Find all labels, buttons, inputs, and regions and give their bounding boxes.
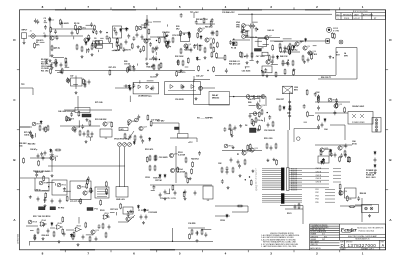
filter box FL1 <box>75 108 90 113</box>
potentiometer VR14 <box>57 183 66 187</box>
svg-text:.02: .02 <box>44 20 47 22</box>
wire <box>285 208 303 210</box>
capacitor C11 <box>211 31 214 36</box>
svg-text:C6: C6 <box>94 38 96 40</box>
svg-text:C50 22/25: C50 22/25 <box>175 99 184 101</box>
resistor R185 <box>84 80 86 86</box>
border scan artifact dashes <box>55 9 330 11</box>
transistor Q12 <box>72 127 80 131</box>
bottom border artifact <box>60 249 175 251</box>
svg-text:SLO - BLO: SLO - BLO <box>366 177 376 179</box>
transistor Q21 <box>169 153 177 157</box>
resistor R18 <box>153 64 155 70</box>
transistor Q17 <box>257 105 265 109</box>
potentiometer VR12 <box>328 98 337 102</box>
svg-text:C72 .07: C72 .07 <box>228 129 235 131</box>
capacitor C38 <box>37 197 40 202</box>
transistor Q8 <box>295 42 302 46</box>
resistor R146 <box>187 177 189 183</box>
junction <box>159 59 160 60</box>
wire <box>150 36 165 38</box>
wire <box>302 168 329 170</box>
capacitor C40 <box>51 199 54 204</box>
resistor R174 <box>198 65 200 71</box>
potentiometer VR7 <box>66 117 74 121</box>
potentiometer VR11 <box>253 112 257 116</box>
footswitch label rows <box>316 189 319 204</box>
resistor R166 <box>176 71 178 77</box>
potentiometer VR6 <box>32 122 40 126</box>
wire <box>313 45 317 47</box>
capacitor C44 <box>184 190 187 195</box>
capacitor C20 <box>43 127 46 132</box>
header HD2 <box>50 207 56 210</box>
power section box corner <box>294 129 320 143</box>
svg-text:R114 1K: R114 1K <box>291 174 298 176</box>
svg-text:R36 870: R36 870 <box>36 40 43 42</box>
resistor R117 <box>89 120 91 126</box>
value label <box>28 143 35 146</box>
notes text block <box>261 233 300 248</box>
capacitor C128 <box>357 196 360 201</box>
resistor R104 <box>289 49 291 55</box>
wire <box>115 87 133 89</box>
junction <box>249 176 250 177</box>
diode CR21 <box>149 137 151 141</box>
svg-text:R120: R120 <box>100 210 105 212</box>
jack panel J5-J8 <box>372 118 381 133</box>
capacitor C124 <box>42 222 45 227</box>
svg-text:Q27: Q27 <box>143 126 147 128</box>
svg-text:APPROVED: APPROVED <box>363 13 374 16</box>
resistor R183 <box>166 40 168 46</box>
ground <box>42 237 45 240</box>
labels <box>352 140 357 145</box>
resistor R159 <box>73 231 75 237</box>
wire <box>65 66 70 68</box>
resistor R109 <box>288 45 290 51</box>
wire <box>115 212 117 215</box>
wire <box>287 130 289 168</box>
resistor R167 <box>275 71 277 77</box>
wire <box>252 98 260 100</box>
svg-text:Fullerton CA U.S.A.: Fullerton CA U.S.A. <box>359 229 375 232</box>
svg-text:FS5: FS5 <box>316 202 319 204</box>
capacitor C21 <box>83 132 86 137</box>
labels <box>264 130 275 132</box>
resistor R163 <box>346 195 348 201</box>
resistor R180 <box>90 187 92 193</box>
svg-text:CR6 CR7: CR6 CR7 <box>276 99 284 101</box>
resistor R57 <box>53 231 55 237</box>
capacitor C71 <box>133 36 136 41</box>
ground <box>303 60 306 63</box>
ribbon wires <box>262 169 302 190</box>
svg-text:Q13: Q13 <box>107 122 111 124</box>
capacitor C136 <box>180 13 183 18</box>
svg-text:R26 8K: R26 8K <box>360 193 367 195</box>
pot refs <box>236 21 241 29</box>
labels <box>124 61 130 65</box>
diode CR5 <box>164 174 166 178</box>
capacitor C140 <box>87 176 90 181</box>
capacitor C142 <box>88 80 91 85</box>
svg-text:R30 7K2: R30 7K2 <box>35 172 42 174</box>
ground <box>60 70 63 73</box>
resistor R60 <box>102 223 104 229</box>
svg-text:0.22 5W: 0.22 5W <box>178 154 185 156</box>
label C47 <box>70 75 73 78</box>
svg-text:VR13: VR13 <box>81 187 86 189</box>
zone letters left <box>13 38 16 222</box>
svg-text:VR20: VR20 <box>132 121 137 123</box>
potentiometer VR16 <box>118 143 122 147</box>
resistor R58 <box>72 234 74 240</box>
transistor Q5 <box>198 28 205 32</box>
header P12 <box>119 128 128 132</box>
wire <box>151 189 155 191</box>
svg-text:R119 1K: R119 1K <box>291 184 298 186</box>
svg-text:C1: C1 <box>43 33 45 35</box>
transistor Q13 <box>103 122 111 126</box>
capacitor C125 <box>98 224 101 229</box>
svg-text:VR7: VR7 <box>36 124 40 126</box>
transistor Q26 <box>338 146 346 150</box>
label <box>145 177 150 179</box>
svg-text:REVISIONS: REVISIONS <box>353 11 368 13</box>
wire <box>63 190 71 192</box>
value label <box>142 38 151 41</box>
svg-text:R30 6K2: R30 6K2 <box>42 235 49 237</box>
IC U5 <box>262 66 272 73</box>
diode CR16 <box>232 42 234 46</box>
svg-text:R117 1K: R117 1K <box>291 180 298 182</box>
resistor R138 <box>105 181 107 187</box>
svg-text:C18 22: C18 22 <box>124 63 130 65</box>
wire <box>100 37 103 39</box>
ground <box>204 56 207 59</box>
svg-text:Q9: Q9 <box>307 46 310 48</box>
revisions table text <box>337 11 378 20</box>
resistor R102 <box>272 45 274 51</box>
ground <box>50 63 53 66</box>
svg-text:C47: C47 <box>70 75 73 78</box>
wire <box>280 51 300 53</box>
svg-text:VOL: VOL <box>246 25 250 27</box>
svg-text:3: 3 <box>256 172 257 174</box>
capacitor C18 <box>287 62 290 67</box>
connector P3 <box>82 114 91 117</box>
resistor R53 <box>232 167 234 173</box>
wire <box>281 62 287 64</box>
capacitor C131 <box>127 212 130 217</box>
transistor Q24 <box>250 148 258 152</box>
capacitor C65 <box>87 48 90 53</box>
wire <box>270 40 330 42</box>
svg-text:DATE: DATE <box>354 13 359 16</box>
capacitor C82 <box>127 66 130 71</box>
svg-text:C46 .0047 R72 6K8: C46 .0047 R72 6K8 <box>58 110 75 113</box>
capacitor C66 <box>95 30 98 35</box>
capacitor C5 <box>125 40 128 45</box>
resistor R158 <box>62 228 64 234</box>
diode CR17 <box>304 38 306 42</box>
svg-text:CR10: CR10 <box>145 177 150 179</box>
svg-text:C65 .04: C65 .04 <box>194 44 202 47</box>
wire <box>54 157 56 161</box>
resistor R116 <box>45 126 47 132</box>
label C12 <box>162 32 169 34</box>
transistor Q14 <box>139 126 147 130</box>
resistor R28 <box>39 125 41 131</box>
label CLOCK <box>150 77 157 79</box>
ground <box>105 192 108 195</box>
resistor R45 <box>149 165 151 171</box>
svg-text:Q6: Q6 <box>209 38 212 40</box>
resistor R112 <box>262 70 264 76</box>
resistor R90 <box>211 52 213 58</box>
wire <box>30 157 52 159</box>
potentiometer VR10 <box>246 95 254 99</box>
diode CR14 <box>200 35 202 39</box>
resistor R170 <box>349 157 351 163</box>
transistor Q10 <box>308 51 316 55</box>
svg-text:U9: U9 <box>349 199 351 201</box>
capacitor C114 <box>35 173 38 178</box>
resistor R92 <box>160 62 162 68</box>
resistor R181 <box>66 196 68 202</box>
resistor R3 <box>81 46 83 52</box>
ground <box>256 60 259 63</box>
diode CR27 <box>70 233 72 237</box>
wire <box>155 52 157 55</box>
svg-text:C23 50/25: C23 50/25 <box>148 212 157 214</box>
capacitor C107 <box>224 127 227 132</box>
labels <box>229 60 240 65</box>
svg-text:VR2: VR2 <box>142 28 146 30</box>
wire <box>194 80 230 105</box>
resistor R73 <box>50 68 52 74</box>
capacitor C102 <box>141 139 144 144</box>
wire <box>196 43 198 50</box>
capacitor C112 <box>44 151 47 156</box>
capacitor C97 <box>30 134 33 139</box>
terminal block TB1 <box>96 41 103 49</box>
svg-text:1: 1 <box>256 169 257 171</box>
capacitor C9 <box>168 40 171 45</box>
svg-text:R80: R80 <box>248 102 251 104</box>
resistor R69 <box>88 34 90 40</box>
capacitor C135 <box>195 20 198 25</box>
footswitch stub wires <box>325 189 335 202</box>
label R60 <box>300 41 303 43</box>
relay K1 <box>254 49 261 52</box>
capacitor C45 <box>194 191 197 196</box>
labels <box>95 101 102 104</box>
capacitor C23 <box>129 135 132 140</box>
resistor R7 <box>116 41 118 47</box>
zone numbers bottom <box>42 252 364 256</box>
wire <box>302 172 329 174</box>
ground <box>23 41 26 44</box>
capacitor C113 <box>90 188 93 193</box>
label TP1 <box>190 12 199 14</box>
resistor R62 <box>191 229 193 235</box>
IC U3 <box>262 52 268 56</box>
resistor R71 <box>75 24 77 30</box>
resistor R93 <box>187 57 189 63</box>
svg-text:SPK: SPK <box>344 55 349 57</box>
capacitor C53 <box>63 232 66 237</box>
capacitor C100 <box>81 124 84 129</box>
ground <box>63 187 66 190</box>
resistor R14 <box>199 45 201 51</box>
op-amp U19 <box>103 213 110 219</box>
svg-text:5. LAST REF DESIG USED: R121,: 5. LAST REF DESIG USED: R121, C84, CR16. <box>261 245 297 248</box>
shield box chorus B <box>209 92 229 106</box>
capacitor C111 <box>40 152 43 157</box>
wire <box>340 205 362 207</box>
resistor R11 <box>164 37 166 43</box>
capacitor C56 <box>108 225 111 230</box>
capacitor C123 <box>344 153 347 158</box>
resistor R25 <box>302 55 304 61</box>
labels <box>280 55 287 58</box>
label <box>145 148 153 151</box>
potentiometer VR8 <box>128 120 137 124</box>
wire <box>185 66 189 68</box>
ground <box>231 134 234 137</box>
svg-text:Q14: Q14 <box>261 105 265 107</box>
resistor R5 <box>55 61 57 67</box>
wire <box>265 97 267 106</box>
svg-text:R57 9K: R57 9K <box>155 180 162 182</box>
svg-text:R110 C80: R110 C80 <box>264 138 272 140</box>
resistor R39 <box>272 121 274 127</box>
resistor R72 <box>94 25 96 31</box>
resistor R106 <box>289 48 291 54</box>
revisions table <box>336 10 386 20</box>
svg-text:R113 1K: R113 1K <box>291 172 298 174</box>
resistor R54 <box>329 150 331 156</box>
junction <box>237 153 238 154</box>
label C6 <box>94 38 96 40</box>
label <box>352 105 365 108</box>
resistor R78 <box>131 43 133 49</box>
transistor Q25 <box>320 148 328 152</box>
wire <box>249 105 256 107</box>
resistor R85 <box>164 32 166 38</box>
capacitor C130 <box>330 152 333 157</box>
junction <box>287 112 288 113</box>
value label <box>109 66 116 69</box>
svg-text:R115 1K: R115 1K <box>291 176 298 178</box>
ground <box>272 158 275 161</box>
resistor R173 <box>213 66 215 72</box>
svg-text:U11B: U11B <box>104 213 109 215</box>
capacitor C60 <box>294 205 297 210</box>
labels <box>321 77 331 79</box>
resistor R4 <box>91 44 97 50</box>
wire <box>302 179 329 181</box>
IC U20 <box>123 207 133 214</box>
value label <box>178 72 185 74</box>
svg-text:C47 10/25: C47 10/25 <box>256 55 265 58</box>
capacitor C28 <box>234 126 237 131</box>
capacitor C90 <box>271 60 274 65</box>
wire <box>263 44 269 46</box>
capacitor C88 <box>283 49 286 54</box>
capacitor C72 <box>113 27 116 32</box>
svg-text:U6: U6 <box>105 138 107 140</box>
ground <box>292 68 295 71</box>
capacitor C12 <box>133 67 136 72</box>
wire <box>193 76 195 82</box>
transistor Q6 <box>205 38 212 42</box>
capacitor C63 <box>36 19 39 24</box>
svg-text:R121: R121 <box>287 213 292 215</box>
ground <box>257 128 260 131</box>
diode CR31 <box>196 57 198 61</box>
capacitor C105 <box>303 104 306 109</box>
ground <box>374 171 377 174</box>
svg-text:C23 9p: C23 9p <box>165 46 172 48</box>
resistor R184 <box>349 206 355 208</box>
wire <box>315 101 350 103</box>
IC U11 <box>70 181 91 200</box>
svg-text:VR11: VR11 <box>43 183 48 185</box>
svg-text:C74 .1 C75 .1 C76: C74 .1 C75 .1 C76 <box>160 197 176 200</box>
resistor R40 <box>318 95 320 101</box>
title block company text <box>357 226 384 232</box>
resistor R9 <box>146 19 152 25</box>
capacitor C103 <box>137 115 140 120</box>
junction <box>48 186 49 187</box>
ground <box>239 174 242 177</box>
svg-text:R26 970: R26 970 <box>184 49 191 51</box>
capacitor C34 <box>317 125 320 130</box>
header HD3 <box>87 208 93 211</box>
svg-text:R32 100K: R32 100K <box>175 56 184 58</box>
capacitor C49 <box>226 170 229 175</box>
label INPUT <box>22 30 29 32</box>
transistor Q20 <box>83 191 91 195</box>
wire <box>259 99 261 102</box>
labels <box>264 138 272 140</box>
capacitor C127 <box>205 232 208 237</box>
wire <box>197 231 199 235</box>
transistor Q19 <box>50 156 58 160</box>
junction <box>267 112 268 113</box>
capacitor C86 <box>272 55 275 60</box>
resistor R153 <box>276 159 278 165</box>
potentiometer VR15 <box>77 185 86 189</box>
ground <box>85 118 88 121</box>
transistor Q2 <box>84 38 91 42</box>
resistor R160 <box>34 234 36 240</box>
ground <box>196 239 199 242</box>
resistor R111 <box>284 69 286 75</box>
value label <box>191 157 198 160</box>
resistor R133 <box>23 157 25 163</box>
title block title text <box>348 235 378 241</box>
resistor R56 <box>37 228 39 234</box>
capacitor C3 <box>71 31 74 36</box>
wire <box>315 144 352 146</box>
wire <box>50 227 55 229</box>
value label <box>194 44 202 47</box>
svg-text:Q4: Q4 <box>188 44 191 46</box>
